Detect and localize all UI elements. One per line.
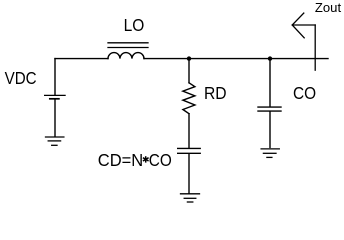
ground (below CO) bbox=[261, 149, 279, 158]
node A junction bbox=[187, 56, 191, 60]
svg-text:RD: RD bbox=[204, 83, 227, 103]
capacitor CO bbox=[258, 107, 281, 111]
wire CO to ground bbox=[269, 112, 271, 148]
svg-text:CD=N: CD=N bbox=[98, 150, 143, 170]
node B junction bbox=[268, 56, 272, 60]
wire VDC vertical riser bbox=[54, 59, 56, 95]
wire node B to output end bbox=[270, 58, 328, 60]
battery VDC bbox=[45, 95, 66, 98]
wire LO to node A bbox=[144, 58, 189, 60]
wire CD to ground bbox=[188, 154, 190, 193]
star operator in CD=N*CO bbox=[143, 156, 149, 162]
svg-text:LO: LO bbox=[124, 15, 145, 35]
inductor LO bbox=[108, 43, 148, 59]
wire main: VDC corner to inductor LO bbox=[55, 58, 108, 60]
svg-text:Zout: Zout bbox=[315, 1, 342, 15]
ground (below CD) bbox=[181, 194, 200, 202]
svg-text:VDC: VDC bbox=[5, 68, 37, 88]
svg-text:CO: CO bbox=[293, 83, 316, 103]
ground (below VDC) bbox=[46, 137, 64, 145]
resistor RD bbox=[183, 83, 195, 114]
svg-text:CO: CO bbox=[149, 150, 172, 170]
wire RD to capacitor CD bbox=[188, 114, 190, 148]
Zout probe arrow bbox=[292, 13, 315, 70]
capacitor CD bbox=[178, 148, 201, 153]
wire node A to resistor RD bbox=[188, 59, 190, 83]
wire battery to ground bbox=[54, 100, 56, 136]
wire node B to capacitor CO bbox=[269, 59, 271, 107]
wire node A to node B bbox=[189, 58, 270, 60]
